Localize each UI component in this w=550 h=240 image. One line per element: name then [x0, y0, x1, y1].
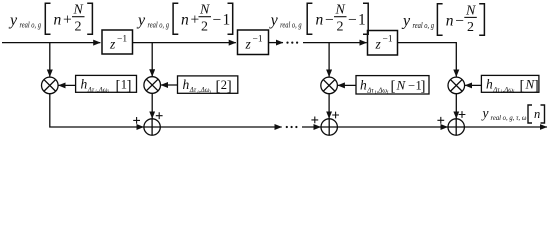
svg-text:y: y: [136, 12, 146, 29]
svg-text:−: −: [408, 78, 415, 92]
svg-text:2: 2: [201, 20, 208, 35]
svg-text:1: 1: [223, 12, 231, 29]
wire: tap down to multiplier M2: [151, 43, 153, 77]
svg-text:−: −: [455, 12, 464, 29]
svg-text:z: z: [109, 37, 116, 52]
wire: tap down to multiplier M3: [328, 43, 330, 77]
wire: M2 down into adder A1: [151, 93, 153, 118]
label: tap signal y[n-N/2]: [401, 3, 484, 35]
svg-text:−1: −1: [117, 35, 127, 45]
wire: H1 into M1: [58, 84, 75, 86]
node: ellipsis on top rail: [286, 42, 298, 44]
svg-text:h: h: [183, 77, 190, 92]
svg-text:−: −: [325, 12, 334, 29]
svg-text:i: i: [387, 91, 389, 96]
label: output signal y[n]: [481, 105, 545, 123]
label z2 value: [245, 35, 263, 52]
svg-text:h: h: [360, 77, 367, 92]
wire: M3 down into adder A2: [328, 94, 330, 119]
svg-text:real o, g, τ, ω: real o, g, τ, ω: [491, 113, 527, 122]
delay z2: [238, 30, 269, 55]
svg-text:h: h: [81, 77, 88, 92]
label: coefficient H2 value h[2]: [183, 77, 232, 95]
delay z3: [368, 31, 398, 56]
adder A1: [144, 119, 160, 135]
wire: H2 into M2: [161, 84, 178, 86]
svg-text:real o, g: real o, g: [413, 20, 435, 30]
label z1 value: [109, 35, 127, 52]
svg-text:real o, g: real o, g: [20, 20, 42, 30]
svg-text:Δτ: Δτ: [492, 87, 500, 94]
svg-text:h: h: [486, 77, 493, 92]
svg-text:y: y: [8, 12, 18, 29]
wire: delay z1 to delay z2: [133, 42, 236, 44]
svg-text:,Δω: ,Δω: [503, 87, 514, 94]
svg-text:[: [: [520, 78, 525, 94]
wire: input rail into first delay: [2, 42, 100, 44]
svg-text:,Δω: ,Δω: [199, 87, 210, 94]
adder A3: [448, 119, 464, 135]
plus sign at A3 left input: [437, 117, 444, 124]
label: input signal y[n+N/2]: [8, 3, 92, 35]
svg-text:−: −: [348, 12, 357, 29]
multiplier M1: [42, 77, 59, 94]
svg-text:N: N: [199, 3, 210, 18]
plus sign at A3 top input: [459, 111, 466, 118]
svg-text:2: 2: [337, 20, 344, 35]
svg-text:n: n: [54, 12, 62, 29]
svg-text:[: [: [216, 78, 221, 94]
wire: adder A1 output with arrow before ellipsis: [160, 126, 281, 128]
wire: H4 into M4: [465, 84, 482, 86]
coefficient box H1: [76, 75, 137, 92]
svg-text:N: N: [73, 3, 84, 18]
svg-text:1: 1: [358, 12, 366, 29]
multiplier M3: [321, 77, 338, 94]
svg-text:2: 2: [467, 20, 474, 35]
svg-text:]: ]: [227, 78, 232, 94]
label: tap signal y[n-N/2-1]: [269, 3, 369, 35]
svg-text:,Δω: ,Δω: [97, 87, 108, 94]
svg-text:]: ]: [421, 79, 426, 95]
svg-text:+: +: [63, 12, 72, 29]
svg-text:y: y: [401, 13, 411, 30]
multiplier M4: [448, 77, 465, 94]
svg-text:+: +: [191, 12, 200, 29]
label: coefficient H1 value h[1]: [81, 77, 132, 95]
label: coefficient H4 value h[N]: [486, 77, 539, 95]
wire: after ellipsis into adder A2: [302, 126, 321, 128]
wire: delay z2 output with arrow: [269, 42, 284, 44]
svg-text:]: ]: [534, 78, 539, 94]
svg-text:n: n: [316, 12, 324, 29]
svg-text:−1: −1: [253, 35, 263, 45]
svg-text:N: N: [465, 3, 476, 18]
plus sign at A2 top input: [332, 112, 339, 119]
wire: H3 into M3: [338, 84, 356, 86]
plus sign at A1 left input: [133, 117, 140, 124]
wire: tap down to multiplier M1: [49, 43, 51, 77]
svg-text:Δτ: Δτ: [189, 87, 197, 94]
svg-text:y: y: [481, 106, 489, 121]
label: tap signal y[n+N/2-1]: [136, 3, 233, 35]
delay z1: [102, 30, 133, 54]
svg-text:−: −: [213, 12, 222, 29]
svg-text:N: N: [396, 77, 407, 92]
svg-text:real o, g: real o, g: [148, 20, 170, 30]
coefficient box H3: [356, 76, 429, 94]
svg-text:]: ]: [127, 78, 132, 94]
svg-text:real o, g: real o, g: [280, 20, 302, 30]
svg-text:n: n: [181, 12, 189, 29]
svg-text:Δτ: Δτ: [366, 87, 374, 94]
wire: M4 down into adder A3: [455, 94, 457, 119]
wire: M1 down and right into adder A1: [50, 94, 144, 127]
node: ellipsis on bottom rail: [286, 126, 298, 128]
wire: delay z3 output, corner down to multiplier M4: [398, 43, 457, 77]
wire: rail after ellipsis into delay z3: [303, 42, 367, 44]
svg-text:,Δω: ,Δω: [377, 87, 388, 94]
svg-text:z: z: [375, 37, 382, 52]
plus sign at A2 left input: [311, 117, 318, 124]
coefficient box H2: [178, 76, 238, 93]
label: coefficient H3 value h[N-1]: [360, 77, 426, 95]
label z3 value: [375, 35, 393, 52]
svg-text:N: N: [335, 3, 346, 18]
svg-text:n: n: [446, 12, 454, 29]
svg-text:[: [: [391, 79, 396, 95]
wire: adder A2 to adder A3: [337, 126, 447, 128]
plus sign at A1 top input: [156, 112, 163, 119]
wire: output of adder A3: [464, 126, 547, 128]
svg-text:y: y: [269, 12, 279, 29]
svg-text:−1: −1: [383, 35, 393, 45]
svg-text:n: n: [534, 107, 540, 121]
svg-text:Δτ: Δτ: [87, 87, 95, 94]
svg-text:z: z: [245, 37, 252, 52]
coefficient box H4: [481, 75, 539, 92]
svg-text:[: [: [116, 78, 121, 94]
multiplier M2: [144, 77, 161, 94]
adder A2: [321, 119, 337, 135]
svg-text:2: 2: [75, 20, 82, 35]
